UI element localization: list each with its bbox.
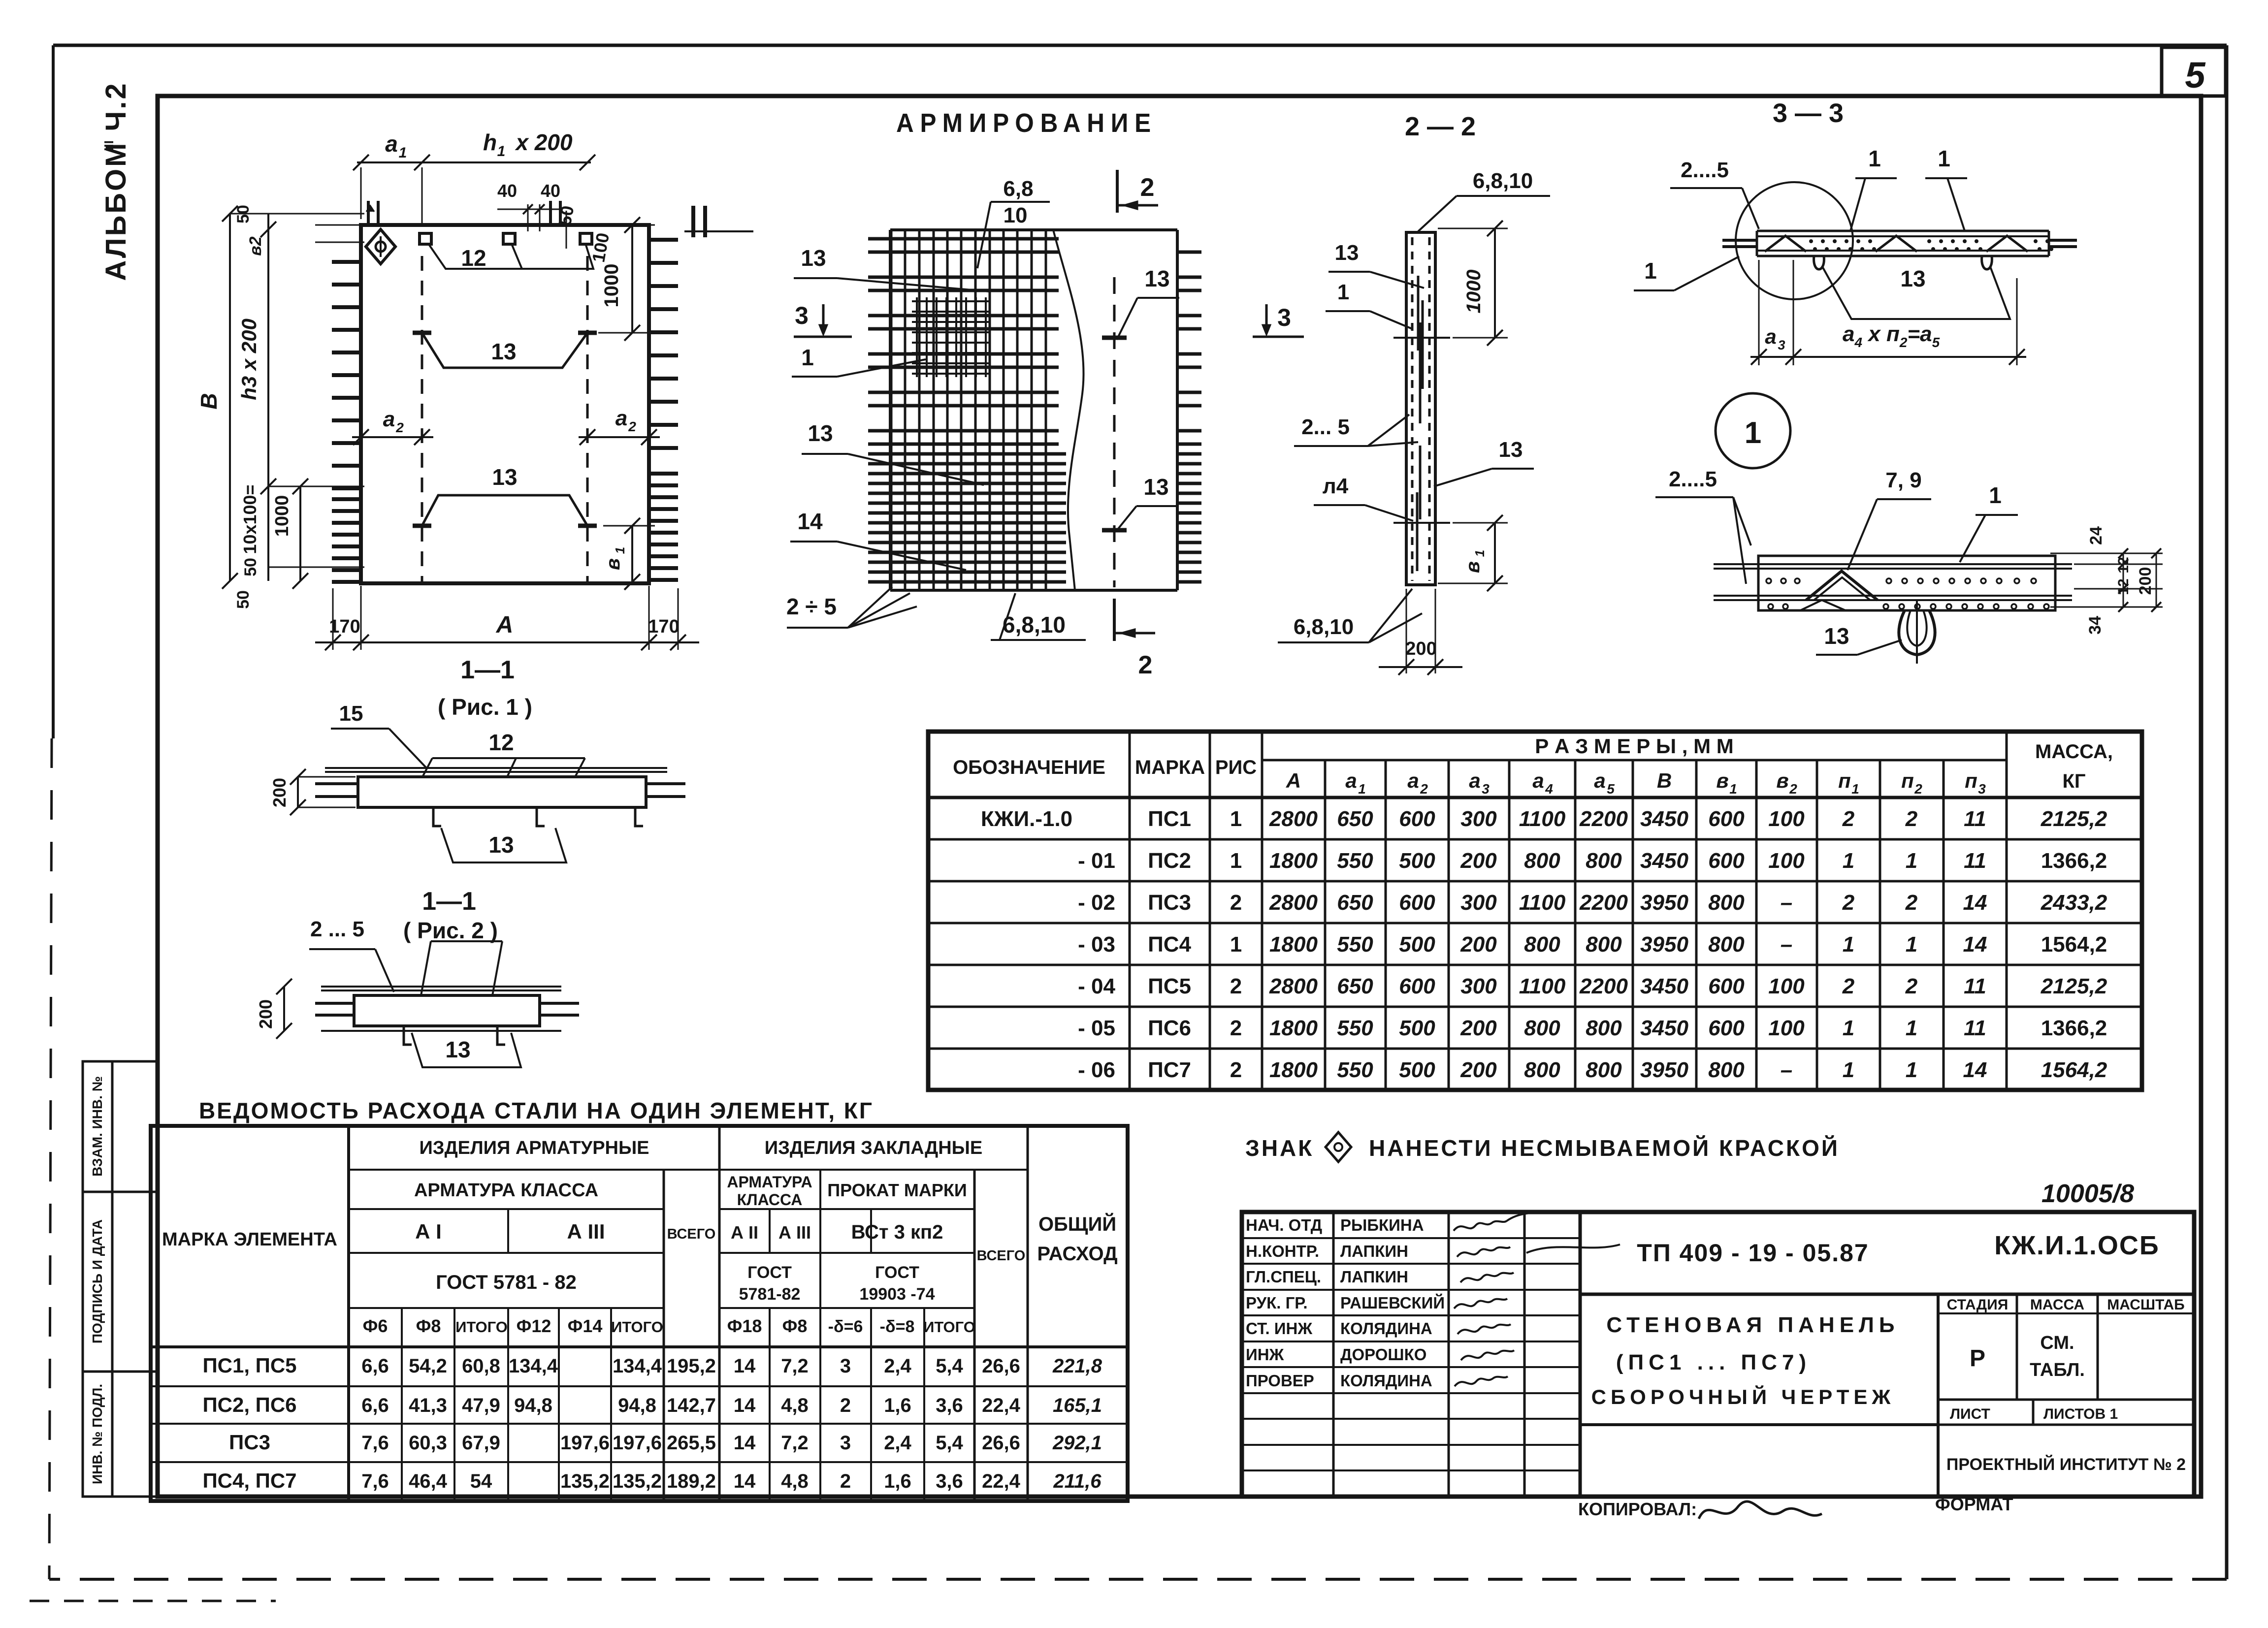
svg-text:3950: 3950 — [1640, 1058, 1688, 1082]
label 2....5 (detail 1) — [1655, 467, 1751, 584]
svg-text:800: 800 — [1586, 1016, 1622, 1040]
svg-text:ПС4: ПС4 — [1148, 932, 1191, 957]
panel axis dashed line left — [421, 256, 423, 582]
svg-text:- 06: - 06 — [1078, 1058, 1115, 1082]
svg-text:- 05: - 05 — [1078, 1016, 1115, 1040]
svg-text:26,6: 26,6 — [982, 1432, 1020, 1454]
svg-text:Ф6: Ф6 — [363, 1316, 388, 1336]
label 2÷5 with leaders (mesh) — [786, 587, 917, 628]
svg-text:МАСШТАБ: МАСШТАБ — [2107, 1297, 2184, 1313]
svg-text:6,8,10: 6,8,10 — [1473, 169, 1533, 193]
svg-text:3450: 3450 — [1640, 849, 1688, 873]
svg-text:600: 600 — [1399, 974, 1435, 998]
svg-text:4,8: 4,8 — [781, 1470, 809, 1492]
svg-text:1: 1 — [1337, 280, 1349, 304]
svg-text:Ф14: Ф14 — [568, 1316, 603, 1336]
label 2...5 with leader (fig2) — [309, 917, 394, 992]
steel table grid — [151, 1126, 1128, 1501]
svg-text:1: 1 — [1906, 849, 1917, 873]
svg-text:ПС7: ПС7 — [1148, 1058, 1191, 1082]
svg-text:650: 650 — [1337, 974, 1373, 998]
svg-text:- 03: - 03 — [1078, 932, 1115, 957]
svg-text:3450: 3450 — [1640, 1016, 1688, 1040]
svg-text:1: 1 — [1843, 1016, 1854, 1040]
svg-text:1: 1 — [1868, 146, 1881, 171]
svg-text:1000: 1000 — [1463, 270, 1485, 314]
svg-text:РЫБКИНА: РЫБКИНА — [1340, 1216, 1424, 1234]
svg-text:550: 550 — [1337, 1016, 1373, 1040]
svg-text:а: а — [1469, 769, 1480, 792]
svg-text:КЖ.И.1.ОСБ: КЖ.И.1.ОСБ — [1994, 1231, 2159, 1260]
label КОПИРОВАЛ with signature — [1578, 1499, 1822, 1519]
svg-text:ТАБЛ.: ТАБЛ. — [2030, 1360, 2085, 1380]
svg-text:3 — 3: 3 — 3 — [1773, 98, 1844, 128]
svg-text:в: в — [1776, 769, 1788, 792]
svg-text:ПС1, ПС5: ПС1, ПС5 — [202, 1354, 296, 1377]
dimensions table headers — [953, 734, 2113, 797]
svg-text:3: 3 — [840, 1355, 851, 1377]
svg-text:3,6: 3,6 — [936, 1470, 963, 1492]
svg-text:РАШЕВСКИЙ: РАШЕВСКИЙ — [1340, 1293, 1445, 1312]
label 1 left (mesh) — [792, 345, 926, 377]
svg-text:6,6: 6,6 — [361, 1355, 389, 1377]
svg-text:5,4: 5,4 — [936, 1432, 963, 1454]
sheet number box with 5 — [2162, 47, 2226, 96]
svg-text:1—1: 1—1 — [460, 656, 515, 684]
svg-text:-δ=6: -δ=6 — [828, 1317, 863, 1336]
section mark 3 right — [1253, 304, 1304, 337]
svg-text:СТ. ИНЖ: СТ. ИНЖ — [1246, 1319, 1312, 1338]
svg-text:1: 1 — [1906, 932, 1917, 957]
svg-text:ВЗАМ. ИНВ. №: ВЗАМ. ИНВ. № — [90, 1076, 105, 1177]
label 6,8,10 (mesh bottom) — [991, 593, 1086, 640]
svg-text:13: 13 — [1824, 623, 1849, 649]
svg-text:АРМИРОВАНИЕ: АРМИРОВАНИЕ — [896, 108, 1157, 138]
embedded plates 12 (three squares) — [420, 233, 592, 244]
svg-text:2125,2: 2125,2 — [2041, 807, 2107, 831]
svg-text:12: 12 — [2115, 557, 2132, 573]
svg-text:В: В — [196, 393, 222, 409]
svg-text:12: 12 — [488, 730, 514, 755]
svg-text:КГ: КГ — [2062, 770, 2085, 792]
svg-text:12: 12 — [461, 245, 486, 271]
svg-text:100: 100 — [1768, 1016, 1805, 1040]
svg-text:50: 50 — [234, 590, 253, 609]
svg-text:2,4: 2,4 — [884, 1355, 911, 1377]
svg-text:200: 200 — [1460, 1016, 1497, 1040]
mesh right protruding bars sparse — [1177, 252, 1201, 444]
svg-text:211,6: 211,6 — [1053, 1470, 1102, 1492]
svg-text:–: – — [1781, 932, 1792, 957]
svg-text:3950: 3950 — [1640, 891, 1688, 915]
svg-text:ВСт 3 кп2: ВСт 3 кп2 — [851, 1221, 943, 1243]
svg-text:1800: 1800 — [1269, 1016, 1318, 1040]
section 2-2 panel outline — [1406, 232, 1435, 585]
svg-text:4: 4 — [1545, 781, 1553, 797]
svg-text:РУК. ГР.: РУК. ГР. — [1246, 1294, 1308, 1312]
svg-text:п: п — [1838, 769, 1851, 792]
title block sheet row — [1950, 1406, 2118, 1422]
svg-text:ПС4, ПС7: ПС4, ПС7 — [202, 1469, 296, 1492]
title block stage mass scale — [1947, 1297, 2185, 1380]
svg-text:ГЛ.СПЕЦ.: ГЛ.СПЕЦ. — [1246, 1268, 1321, 1286]
svg-text:6,6: 6,6 — [361, 1395, 389, 1416]
svg-text:1: 1 — [801, 345, 814, 370]
svg-text:600: 600 — [1399, 807, 1435, 831]
svg-text:26,6: 26,6 — [982, 1355, 1020, 1377]
label 13 (2-2 upper left) — [1328, 241, 1424, 288]
section 3-3 mesh dots — [1809, 239, 2053, 251]
svg-text:ЗНАК: ЗНАК — [1245, 1135, 1314, 1161]
svg-text:197,6: 197,6 — [613, 1432, 662, 1454]
label 6,8,10 (2-2 top) — [1418, 169, 1550, 231]
svg-text:200: 200 — [1460, 1058, 1497, 1082]
svg-text:А I: А I — [415, 1220, 442, 1243]
svg-text:2200: 2200 — [1579, 891, 1628, 915]
label 6,8 over 10 (mesh top) — [977, 177, 1050, 268]
svg-text:п: п — [1965, 769, 1977, 792]
svg-text:ВЕДОМОСТЬ РАСХОДА СТАЛИ: ВЕДОМОСТЬ РАСХОДА СТАЛИ НА ОДИН ЭЛЕМЕНТ,… — [199, 1098, 874, 1123]
detail 1 lifting loop teardrop — [1899, 600, 1935, 664]
label 2...5 (2-2 left) — [1294, 415, 1418, 446]
dimensions table data rows — [981, 807, 2107, 1082]
title block roles and names — [1246, 1216, 1445, 1390]
svg-text:14: 14 — [734, 1355, 756, 1377]
svg-text:а: а — [1765, 325, 1776, 348]
section 1-1 fig1 slab body — [315, 768, 685, 807]
detail 1 right dimensions — [2050, 526, 2163, 635]
svg-text:41,3: 41,3 — [409, 1395, 447, 1416]
title 1-1 (Рис. 2) — [403, 887, 498, 943]
svg-text:14: 14 — [1963, 932, 1987, 957]
section 3-3 truss triangles — [1765, 236, 2028, 252]
svg-text:7,2: 7,2 — [781, 1432, 809, 1454]
svg-text:6,8,10: 6,8,10 — [1294, 615, 1354, 639]
svg-text:ПС3: ПС3 — [1148, 891, 1191, 915]
svg-text:1,6: 1,6 — [884, 1395, 911, 1416]
svg-text:ПС2: ПС2 — [1148, 849, 1191, 873]
svg-text:3,6: 3,6 — [936, 1395, 963, 1416]
svg-text:800: 800 — [1524, 849, 1560, 873]
label 13 mid left (mesh) — [802, 420, 984, 485]
dimension 1000 (right upper) — [598, 217, 655, 341]
svg-text:а: а — [383, 407, 395, 431]
svg-text:2: 2 — [1842, 891, 1855, 915]
svg-text:АРМАТУРА: АРМАТУРА — [727, 1173, 812, 1191]
dimension 50 marks (left corners, rotated) — [234, 205, 364, 609]
svg-text:50: 50 — [234, 205, 253, 223]
svg-text:–: – — [1781, 1058, 1792, 1082]
title block outer frame — [1242, 1212, 2194, 1497]
svg-text:135,2: 135,2 — [560, 1470, 610, 1492]
svg-text:1: 1 — [1989, 482, 2002, 508]
svg-text:2: 2 — [395, 420, 404, 435]
svg-text:МАССА,: МАССА, — [2035, 741, 2113, 763]
svg-text:h: h — [483, 129, 497, 155]
section 3-3 right bars — [2049, 240, 2077, 247]
svg-text:РИС: РИС — [1215, 757, 1257, 778]
label 12 (section fig1) — [488, 730, 514, 755]
svg-text:600: 600 — [1399, 891, 1435, 915]
svg-text:ИНЖ: ИНЖ — [1246, 1345, 1284, 1364]
svg-text:ИНВ. № ПОДЛ.: ИНВ. № ПОДЛ. — [90, 1384, 105, 1484]
svg-text:ПРОКАТ МАРКИ: ПРОКАТ МАРКИ — [827, 1180, 967, 1200]
svg-text:94,8: 94,8 — [618, 1395, 656, 1416]
label 13 (detail 1) — [1816, 623, 1902, 655]
svg-text:а4 х п2=а5: а4 х п2=а5 — [1843, 322, 1940, 350]
svg-text:11: 11 — [1964, 974, 1986, 998]
svg-text:ЛИСТ: ЛИСТ — [1950, 1406, 1990, 1422]
mesh break line (wavy) — [1053, 230, 1084, 590]
svg-text:А: А — [496, 612, 514, 638]
svg-text:50: 50 — [241, 558, 260, 576]
svg-text:ИТОГО: ИТОГО — [455, 1318, 508, 1336]
svg-text:ОБЩИЙ: ОБЩИЙ — [1038, 1213, 1116, 1235]
svg-text:11: 11 — [1964, 1016, 1986, 1040]
svg-text:1: 1 — [1358, 781, 1366, 797]
dimensions table РАЗМЕРЫ grid — [928, 732, 2142, 1090]
title block inner dividers — [1580, 1294, 2194, 1497]
svg-text:1800: 1800 — [1269, 1058, 1318, 1082]
svg-text:200: 200 — [256, 999, 276, 1029]
note ЗНАК НАНЕСТИ НЕСМЫВАЕМОЙ КРАСКОЙ — [1245, 1132, 1840, 1162]
svg-text:А: А — [1286, 769, 1301, 792]
svg-text:РАСХОД: РАСХОД — [1037, 1243, 1117, 1265]
svg-text:2 — 2: 2 — 2 — [1405, 112, 1476, 141]
svg-text:ИТОГО: ИТОГО — [611, 1318, 663, 1336]
svg-text:800: 800 — [1708, 891, 1745, 915]
section 2-2 inner bars — [1417, 276, 1423, 571]
svg-text:КОЛЯДИНА: КОЛЯДИНА — [1340, 1319, 1432, 1338]
svg-text:ВСЕГО: ВСЕГО — [667, 1226, 716, 1242]
svg-text:300: 300 — [1460, 974, 1497, 998]
svg-text:x 200: x 200 — [514, 129, 573, 155]
svg-text:134,4: 134,4 — [509, 1355, 558, 1377]
svg-text:п: п — [1901, 769, 1914, 792]
svg-text:34: 34 — [2086, 616, 2105, 635]
svg-text:АРМАТУРА КЛАССА: АРМАТУРА КЛАССА — [414, 1180, 598, 1201]
label 13 flag (section fig2) — [412, 1033, 521, 1067]
svg-text:165,1: 165,1 — [1053, 1395, 1102, 1416]
svg-text:2 ÷ 5: 2 ÷ 5 — [786, 594, 837, 619]
svg-text:265,5: 265,5 — [667, 1432, 716, 1454]
svg-text:2....5: 2....5 — [1681, 158, 1729, 182]
svg-text:МАССА: МАССА — [2030, 1297, 2084, 1313]
label 15 with leader — [331, 702, 427, 769]
svg-text:2: 2 — [1914, 781, 1922, 797]
detail circle mark — [1736, 182, 1853, 299]
label 13 flag (section fig1) — [441, 828, 566, 862]
svg-text:46,4: 46,4 — [409, 1470, 448, 1492]
svg-text:5: 5 — [1607, 781, 1615, 797]
svg-text:а: а — [616, 406, 627, 430]
svg-text:800: 800 — [1586, 932, 1622, 957]
svg-text:ГОСТ: ГОСТ — [875, 1263, 919, 1282]
svg-text:40: 40 — [541, 181, 560, 201]
svg-text:1: 1 — [1851, 781, 1859, 797]
svg-text:1: 1 — [1644, 258, 1657, 284]
dimension 40 40 (top small) — [497, 181, 561, 231]
svg-text:14: 14 — [1963, 891, 1987, 915]
svg-text:2: 2 — [1138, 651, 1153, 679]
label 1 second (3-3 top) — [1925, 146, 1967, 231]
svg-text:2800: 2800 — [1269, 891, 1318, 915]
label 13 upper right (mesh) — [1117, 266, 1179, 340]
svg-text:14: 14 — [734, 1432, 756, 1454]
svg-text:ИЗДЕЛИЯ ЗАКЛАДНЫЕ: ИЗДЕЛИЯ ЗАКЛАДНЫЕ — [765, 1138, 982, 1158]
svg-text:- 04: - 04 — [1078, 974, 1115, 998]
mesh horizontal wires sparse — [868, 239, 1059, 444]
section mark 3 left — [794, 302, 852, 337]
svg-text:1100: 1100 — [1519, 807, 1566, 831]
svg-text:500: 500 — [1399, 1016, 1435, 1040]
quality mark diamond — [366, 229, 395, 264]
svg-text:2: 2 — [1230, 891, 1242, 915]
lifting loop 13 upper — [413, 333, 597, 368]
svg-text:600: 600 — [1708, 1016, 1745, 1040]
svg-text:1: 1 — [1472, 550, 1487, 557]
dimension 200 (2-2 bottom) — [1379, 589, 1462, 675]
svg-text:3950: 3950 — [1640, 932, 1688, 957]
svg-text:ПС2, ПС6: ПС2, ПС6 — [202, 1393, 296, 1416]
svg-text:500: 500 — [1399, 932, 1435, 957]
svg-text:2: 2 — [1905, 891, 1918, 915]
label 13 lower right (mesh) — [1116, 474, 1178, 532]
section 2-2 anchor ticks — [1393, 338, 1450, 523]
svg-text:14: 14 — [734, 1470, 756, 1492]
svg-text:1366,2: 1366,2 — [2041, 849, 2107, 873]
svg-text:1: 1 — [613, 547, 627, 554]
svg-text:в: в — [602, 558, 624, 570]
svg-text:100: 100 — [1768, 849, 1805, 873]
svg-text:1,6: 1,6 — [884, 1470, 911, 1492]
svg-text:2: 2 — [1230, 1058, 1242, 1082]
margin box ИНВ. № ПОДЛ. — [83, 1372, 158, 1497]
label 14 left (mesh) — [790, 509, 966, 570]
svg-text:КОПИРОВАЛ:: КОПИРОВАЛ: — [1578, 1499, 1697, 1519]
title block drawing name — [1591, 1313, 1900, 1408]
svg-text:ПС5: ПС5 — [1148, 974, 1191, 998]
svg-text:ИТОГО: ИТОГО — [923, 1318, 975, 1336]
svg-text:а: а — [1594, 769, 1605, 792]
svg-text:170: 170 — [329, 616, 360, 637]
vertical margin text АЛЬБОМ Ч.2 — [100, 81, 132, 281]
svg-text:2800: 2800 — [1269, 807, 1318, 831]
section mark 2 bottom — [1114, 599, 1155, 679]
dimension a2 right — [579, 406, 660, 445]
svg-text:200: 200 — [1405, 638, 1436, 659]
svg-text:h3 x 200: h3 x 200 — [237, 319, 260, 400]
svg-text:800: 800 — [1524, 1058, 1560, 1082]
svg-text:1100: 1100 — [1519, 891, 1566, 915]
svg-text:1366,2: 1366,2 — [2041, 1016, 2107, 1040]
svg-text:(ПС1 ... ПС7): (ПС1 ... ПС7) — [1616, 1350, 1811, 1374]
svg-text:13: 13 — [808, 420, 833, 446]
svg-text:2: 2 — [1905, 974, 1918, 998]
detail 1 mesh dots — [1766, 578, 2049, 609]
svg-text:1: 1 — [1906, 1016, 1917, 1040]
svg-text:200: 200 — [269, 778, 290, 807]
svg-text:22,4: 22,4 — [982, 1395, 1021, 1416]
svg-text:ПС3: ПС3 — [229, 1431, 270, 1454]
svg-text:50: 50 — [554, 204, 578, 227]
svg-text:2: 2 — [1420, 781, 1428, 797]
svg-text:МАРКА: МАРКА — [1135, 757, 1205, 778]
svg-text:3: 3 — [840, 1432, 851, 1454]
dimension 1000 (2-2) — [1438, 221, 1508, 346]
svg-text:1: 1 — [1938, 146, 1950, 171]
steel table title — [199, 1098, 874, 1123]
svg-text:3: 3 — [1482, 781, 1490, 797]
margin box ВЗАМ. ИНВ. № — [83, 1061, 158, 1192]
label 6,8,10 (2-2 bottom) — [1278, 589, 1422, 642]
svg-text:2: 2 — [840, 1470, 851, 1492]
svg-text:–: – — [1781, 891, 1792, 915]
svg-text:а: а — [1407, 769, 1419, 792]
label 13 upper left (mesh) — [794, 245, 989, 291]
svg-text:СТАДИЯ: СТАДИЯ — [1947, 1297, 2009, 1313]
title АРМИРОВАНИЕ — [896, 108, 1157, 138]
svg-text:800: 800 — [1708, 932, 1745, 957]
svg-text:195,2: 195,2 — [667, 1355, 716, 1377]
svg-text:ДОРОШКО: ДОРОШКО — [1340, 1345, 1426, 1364]
svg-text:2: 2 — [1140, 173, 1155, 202]
svg-text:1800: 1800 — [1269, 932, 1318, 957]
section 1-1 fig2 slab body — [315, 987, 579, 1031]
panel right protruding bars dense — [649, 474, 678, 580]
loop hooks below band (3-3) — [1814, 256, 1992, 269]
label 1 (2-2 left) — [1326, 280, 1412, 329]
svg-text:13: 13 — [801, 245, 826, 271]
svg-text:14: 14 — [797, 509, 823, 534]
svg-text:60,8: 60,8 — [462, 1355, 500, 1377]
svg-text:2125,2: 2125,2 — [2041, 974, 2107, 998]
svg-text:1: 1 — [1729, 781, 1737, 797]
svg-text:-δ=8: -δ=8 — [880, 1317, 915, 1336]
svg-text:2,4: 2,4 — [884, 1432, 911, 1454]
svg-text:500: 500 — [1399, 1058, 1435, 1082]
svg-text:60,3: 60,3 — [409, 1432, 447, 1454]
additional mesh patch (item 1) — [912, 297, 991, 377]
svg-text:2800: 2800 — [1269, 974, 1318, 998]
svg-text:2: 2 — [1905, 807, 1918, 831]
svg-text:- 02: - 02 — [1078, 891, 1115, 915]
svg-text:7,6: 7,6 — [361, 1470, 389, 1492]
label 1 (3-3 left) — [1634, 256, 1739, 290]
svg-text:2: 2 — [1230, 974, 1242, 998]
dimension a1 and h1 x 200 (top) — [353, 129, 595, 226]
dimension A with 170 170 (bottom) — [315, 586, 699, 650]
svg-text:600: 600 — [1708, 974, 1745, 998]
svg-text:13: 13 — [492, 464, 517, 490]
section 3-3 band outline — [1757, 231, 2049, 256]
svg-text:15: 15 — [339, 702, 363, 726]
svg-text:КЖИ.-1.0: КЖИ.-1.0 — [981, 807, 1072, 831]
svg-text:в2: в2 — [246, 236, 265, 256]
svg-text:134,4: 134,4 — [613, 1355, 662, 1377]
svg-text:ОБОЗНАЧЕНИЕ: ОБОЗНАЧЕНИЕ — [953, 757, 1105, 778]
svg-text:800: 800 — [1586, 1058, 1622, 1082]
dimension a3, a4xn2=a5 (3-3) — [1750, 260, 2026, 365]
svg-text:5,4: 5,4 — [936, 1355, 963, 1377]
svg-text:550: 550 — [1337, 1058, 1373, 1082]
svg-text:600: 600 — [1708, 807, 1745, 831]
svg-text:СБОРОЧНЫЙ ЧЕРТЕЖ: СБОРОЧНЫЙ ЧЕРТЕЖ — [1591, 1385, 1895, 1408]
svg-text:КЛАССА: КЛАССА — [737, 1191, 803, 1209]
svg-text:13: 13 — [1144, 266, 1169, 291]
title block document code ТП 409-19-05.87 — [1637, 1239, 1869, 1267]
label ФОРМАТ — [1935, 1494, 2013, 1514]
